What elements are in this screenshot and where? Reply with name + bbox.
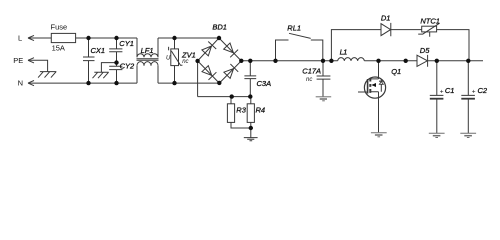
- transistor Q1 MOSFET: [378, 61, 380, 79]
- fuse F1 body: [51, 33, 75, 42]
- svg-text:C17A: C17A: [302, 66, 321, 75]
- capacitor CX1: [83, 38, 95, 83]
- wire minus rail: [198, 96, 251, 98]
- wire fuse to LF1 top: [76, 37, 137, 39]
- svg-text:C2: C2: [478, 86, 488, 95]
- ground below C2: [460, 133, 476, 137]
- diode BD1 upper-right: [224, 43, 238, 57]
- svg-text:BD1: BD1: [212, 22, 227, 31]
- wire N terminal to LF1 bottom: [28, 82, 137, 84]
- ground below Q1: [378, 92, 380, 132]
- thermistor NTC1: [422, 26, 437, 32]
- resistor R3: [230, 97, 232, 104]
- svg-text:CY2: CY2: [120, 62, 135, 71]
- relay contact RL1: [276, 33, 323, 61]
- svg-text:ZV1: ZV1: [181, 50, 196, 59]
- wire PE to earth: [28, 60, 48, 71]
- capacitor C2: [461, 61, 475, 133]
- wire L terminal to fuse: [28, 37, 51, 39]
- diode BD1 lower-left: [202, 66, 216, 80]
- wire CY midpoint to earth: [101, 63, 116, 73]
- wire bridge right to bus: [241, 60, 337, 62]
- diode BD1 lower-right: [224, 64, 238, 78]
- diode D1: [381, 23, 391, 36]
- varistor ZV1: [174, 38, 176, 49]
- svg-text:Q1: Q1: [391, 67, 401, 76]
- wire bridge left corner to minus rail: [197, 61, 199, 97]
- capacitor CY2: [109, 63, 122, 84]
- node PE connector arrow: [28, 58, 34, 63]
- svg-text:15A: 15A: [52, 44, 65, 53]
- transistor Q1 arrow: [371, 83, 376, 87]
- inductor L1: [338, 58, 365, 61]
- svg-text:D1: D1: [381, 14, 391, 23]
- capacitor C3A: [244, 61, 256, 97]
- svg-text:U: U: [166, 56, 171, 62]
- svg-text:R3: R3: [236, 106, 246, 115]
- svg-text:LF1: LF1: [141, 46, 154, 55]
- svg-text:NTC1: NTC1: [420, 17, 440, 26]
- capacitor C17A: [317, 61, 331, 97]
- ground earth PE: [38, 72, 56, 78]
- svg-text:+: +: [472, 88, 476, 95]
- svg-text:CX1: CX1: [91, 46, 106, 55]
- ground earth CY: [93, 72, 109, 78]
- node junction dots: [86, 36, 90, 40]
- svg-text:L: L: [18, 33, 22, 42]
- ground below C17A: [316, 97, 332, 101]
- wire N LF1 to bridge bottom: [158, 82, 219, 84]
- resistor R4: [250, 97, 252, 104]
- svg-text:nc: nc: [306, 77, 312, 83]
- svg-text:+: +: [440, 88, 444, 95]
- node N connector arrow: [28, 81, 34, 86]
- node L connector arrow: [28, 35, 34, 40]
- svg-text:D5: D5: [420, 46, 430, 55]
- wire L1 to D5: [364, 60, 417, 62]
- svg-text:nc: nc: [182, 59, 188, 65]
- capacitor C1: [430, 61, 444, 133]
- svg-text:RL1: RL1: [287, 23, 301, 32]
- bridge rectifier BD1: [198, 38, 242, 83]
- capacitor CY1: [109, 38, 122, 63]
- wire D1 to NTC1: [391, 29, 422, 31]
- svg-text:N: N: [18, 79, 23, 88]
- svg-text:Fuse: Fuse: [51, 22, 68, 31]
- diode D5: [417, 55, 428, 67]
- ground below C1: [429, 133, 445, 137]
- svg-text:L1: L1: [340, 47, 348, 56]
- inductor LF1 common mode choke: [137, 38, 158, 57]
- wire D1 branch riser: [331, 30, 381, 61]
- diode BD1 upper-left: [202, 42, 216, 56]
- svg-text:R4: R4: [256, 106, 266, 115]
- ground below R3 R4: [244, 128, 258, 141]
- svg-text:PE: PE: [13, 56, 23, 65]
- wire NTC1 to C2 node: [437, 30, 469, 61]
- svg-text:C1: C1: [445, 86, 455, 95]
- svg-text:CY1: CY1: [119, 39, 134, 48]
- wire D5 to end: [428, 60, 483, 62]
- wire LF1 to bridge top: [158, 37, 219, 39]
- svg-text:C3A: C3A: [257, 79, 272, 88]
